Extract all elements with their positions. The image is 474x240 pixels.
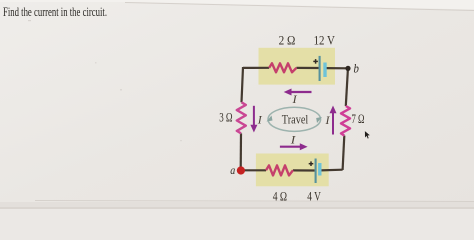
battery 12V plus sign [313,59,318,64]
wire right upper [346,68,348,107]
battery 4V plus sign [309,161,314,166]
bottom shelf line [35,201,474,202]
svg-text:Travel: Travel [282,111,309,126]
resistor R 3ohm [237,102,246,133]
diagonal screen edge line top [125,3,474,11]
wire bottom right [321,169,343,172]
yellow highlight box top [259,48,336,85]
svg-text:Find the current in the circui: Find the current in the circuit. [3,4,107,19]
top light strip above screen edge [0,0,474,10]
resistor R 2ohm [269,63,296,72]
wire left lower [240,133,243,170]
current arrow right branch (up) [330,106,337,135]
node b dot [345,66,350,71]
node a dot [237,166,245,174]
resistor R 7ohm [341,106,350,136]
travel ellipse arrowhead left [267,116,273,122]
wire top right [326,67,348,69]
battery 12V short plate [323,63,326,78]
current arrow bottom middle (right) [280,143,308,150]
svg-text:3 Ω: 3 Ω [219,110,232,124]
mouse cursor [365,131,371,139]
wire top [243,67,269,69]
faint speck [28,20,31,21]
wire bottom mid [293,169,315,171]
svg-text:2 Ω: 2 Ω [279,33,296,47]
wire left upper [242,67,244,102]
battery 12V long plate [319,56,321,81]
current arrow top middle (left) [284,89,312,96]
svg-text:b: b [354,61,359,75]
svg-text:12 V: 12 V [314,33,335,47]
battery 4V long plate [315,159,317,184]
travel ellipse arrowhead right [316,117,322,123]
wire right lower [343,136,345,170]
travel ellipse [268,107,321,131]
svg-text:4 V: 4 V [307,189,321,203]
wire top mid [296,67,318,69]
current arrow left branch (down) [250,106,257,133]
wire bottom left [241,169,266,171]
svg-text:7 Ω: 7 Ω [352,112,365,126]
resistor R 4ohm [266,165,293,175]
svg-text:a: a [230,163,235,177]
yellow highlight box bottom [256,154,329,187]
battery 4V short plate [318,163,321,176]
svg-text:4 Ω: 4 Ω [273,189,287,203]
